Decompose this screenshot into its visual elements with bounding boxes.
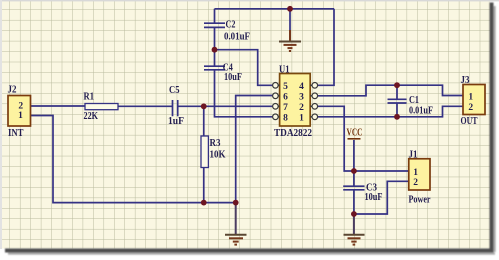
wire J1 pin 2 to C3 bottom node — [354, 181, 409, 214]
ground top — [279, 30, 301, 51]
node junction C2/C4 branch — [212, 47, 218, 53]
ground bottom right — [344, 214, 365, 245]
svg-text:C5: C5 — [169, 85, 180, 96]
svg-text:OUT: OUT — [461, 116, 478, 127]
wire pin 3 to J3 pin 1 — [318, 85, 463, 96]
svg-text:6: 6 — [283, 92, 288, 102]
connector J2 — [8, 96, 31, 127]
node junction C1 bottom — [394, 114, 400, 120]
svg-text:VCC: VCC — [347, 128, 363, 139]
svg-text:10uF: 10uF — [224, 72, 242, 83]
wire top ground stem upper — [289, 9, 291, 30]
svg-text:10uF: 10uF — [365, 192, 383, 203]
J2 pin numbers — [18, 102, 23, 121]
wire pin 2 to J1 pin 1 — [318, 106, 409, 171]
svg-text:10K: 10K — [210, 150, 227, 161]
svg-text:TDA2822: TDA2822 — [274, 128, 312, 139]
node junction bottom rail ground — [233, 200, 239, 206]
svg-text:1: 1 — [468, 92, 473, 102]
node junction C1 top — [394, 82, 400, 88]
svg-text:Power: Power — [409, 195, 431, 206]
wire C5 to U1 pin 7 — [178, 105, 273, 107]
svg-text:5: 5 — [283, 82, 288, 92]
capacitor C4 — [204, 66, 225, 70]
node junction VCC/C3 — [351, 168, 357, 174]
svg-text:1uF: 1uF — [168, 116, 184, 127]
connector J3 — [463, 85, 485, 115]
svg-text:0.01uF: 0.01uF — [409, 106, 433, 117]
U1 pin stubs — [278, 85, 312, 117]
wire C3 bottom stem — [353, 190, 355, 214]
wire vertical C2 C4 branch to pin 8 — [215, 9, 273, 117]
frame light top/left — [0, 0, 499, 1]
svg-text:22K: 22K — [84, 111, 99, 122]
J3 pin numbers — [468, 92, 473, 113]
wire pin 1 to J3 pin 2 — [318, 106, 463, 117]
resistor R3 — [201, 136, 208, 168]
node junction R3 bottom — [201, 200, 207, 206]
wire C1 bottom stem — [396, 103, 398, 117]
svg-text:U1: U1 — [279, 64, 290, 75]
node junction C3 bottom — [351, 211, 357, 217]
svg-text:R3: R3 — [210, 138, 221, 149]
svg-text:J3: J3 — [461, 75, 470, 86]
power VCC — [347, 128, 363, 139]
IC U1 — [280, 74, 311, 127]
capacitor C2 — [204, 23, 225, 27]
svg-text:C1: C1 — [409, 95, 419, 106]
svg-text:C2: C2 — [226, 20, 236, 31]
J1 pin numbers — [413, 168, 418, 188]
node junction C5/R3 — [201, 103, 207, 109]
wire R3 top stem — [203, 106, 205, 136]
capacitor C3 — [343, 186, 364, 190]
wire VCC stem — [353, 140, 355, 171]
svg-text:1: 1 — [299, 113, 304, 123]
svg-text:R1: R1 — [84, 92, 95, 103]
connector J1 — [409, 159, 430, 190]
svg-text:2: 2 — [468, 103, 473, 113]
svg-text:J1: J1 — [409, 150, 418, 161]
capacitor C1 — [388, 99, 407, 103]
capacitor C5 — [173, 100, 178, 116]
wire C1 top stem — [396, 85, 398, 99]
svg-text:3: 3 — [299, 92, 304, 102]
wire pin 6 to bottom rail — [236, 96, 273, 203]
U1 pin numbers — [283, 82, 304, 124]
wire R1 to C5 — [118, 105, 172, 107]
wire R3 bottom stem — [203, 168, 205, 203]
wire node B to pin 5 — [215, 50, 273, 86]
wire J2 pin1 down and along bottom — [31, 116, 236, 203]
svg-text:7: 7 — [283, 103, 288, 113]
svg-text:0.01uF: 0.01uF — [224, 32, 250, 43]
svg-text:2: 2 — [299, 103, 304, 113]
svg-text:2: 2 — [413, 178, 418, 188]
wire top rail — [215, 8, 335, 10]
resistor R1 — [85, 104, 118, 110]
U1 pin circles right — [312, 83, 318, 120]
svg-text:INT: INT — [8, 128, 24, 139]
U1 pin circles left — [273, 83, 279, 120]
svg-text:8: 8 — [283, 113, 288, 123]
svg-text:4: 4 — [299, 82, 304, 92]
svg-text:J2: J2 — [8, 85, 17, 96]
wire pin 4 to top rail — [318, 9, 334, 86]
node junction top rail ground — [287, 6, 293, 12]
svg-text:1: 1 — [413, 168, 418, 178]
ground bottom center — [225, 203, 247, 245]
wire J2 pin2 to R1 — [31, 105, 86, 107]
svg-text:1: 1 — [18, 111, 23, 121]
wire C3 top stem — [353, 171, 355, 186]
